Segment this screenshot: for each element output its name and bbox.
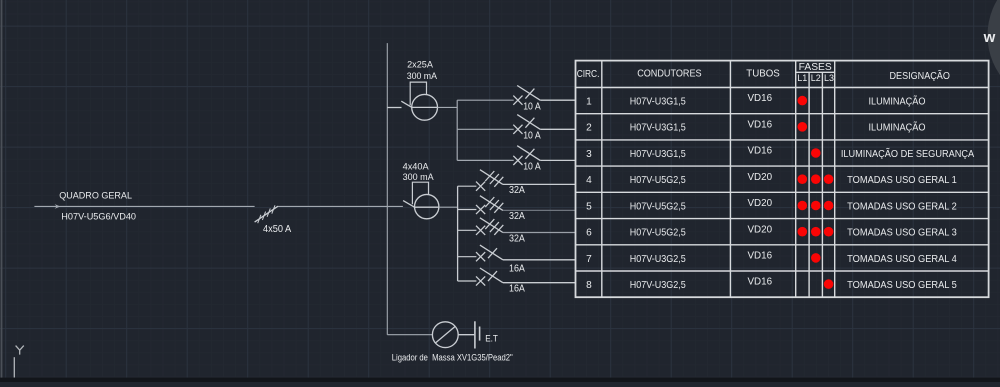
svg-text:8: 8 [586, 280, 592, 291]
breaker Q7 16A circuit 7 [458, 256, 477, 258]
svg-text:TUBOS: TUBOS [746, 68, 780, 79]
svg-text:10 A: 10 A [523, 102, 541, 113]
table row circuit 4 phase L2 dot [811, 174, 821, 184]
table row circuit 5 phase L3 dot [824, 201, 834, 211]
table row circuit 4 phase L3 dot [824, 174, 834, 184]
svg-text:H07V-U5G2,5: H07V-U5G2,5 [630, 201, 686, 212]
svg-text:300 mA: 300 mA [407, 71, 437, 81]
table row circuit 5 phase L2 dot [811, 201, 821, 211]
svg-text:VD20: VD20 [748, 224, 773, 235]
wire earth connector to electrode [458, 334, 474, 336]
breaker Q4 32A circuit 4 [458, 185, 477, 187]
table row circuit 1 phase L1 dot [798, 96, 808, 106]
wire distribution riser 1 [456, 100, 458, 160]
breaker Q2 10A circuit 2 [457, 128, 514, 130]
svg-text:ILUMINAÇÃO: ILUMINAÇÃO [869, 97, 926, 108]
ground electrode bar 2 [479, 327, 481, 341]
svg-text:H07V-U5G6/VD40: H07V-U5G6/VD40 [61, 212, 136, 222]
svg-text:H07V-U5G2,5: H07V-U5G2,5 [630, 228, 686, 239]
wire RCD U1 to distribution [438, 106, 458, 108]
RCD U2 sensor rectangle [412, 182, 428, 204]
svg-text:VD16: VD16 [748, 119, 773, 130]
svg-text:L1: L1 [797, 73, 807, 84]
table row circuit 6 phase L2 dot [811, 227, 821, 237]
svg-text:ILUMINAÇÃO DE SEGURANÇA: ILUMINAÇÃO DE SEGURANÇA [841, 149, 975, 160]
svg-text:4x50 A: 4x50 A [263, 224, 291, 235]
svg-text:TOMADAS USO GERAL 1: TOMADAS USO GERAL 1 [847, 175, 957, 186]
svg-text:FASES: FASES [799, 62, 832, 73]
table row circuit 6 phase L1 dot [798, 227, 808, 237]
svg-text:ILUMINAÇÃO: ILUMINAÇÃO [869, 123, 926, 134]
watermark circle W [988, 0, 1000, 105]
svg-text:VD16: VD16 [748, 93, 773, 104]
UCS icon Y axis [16, 346, 24, 355]
svg-text:L3: L3 [824, 73, 834, 84]
svg-text:VD20: VD20 [748, 172, 773, 183]
ground electrode bar 1 [474, 321, 476, 348]
svg-text:CIRC.: CIRC. [577, 69, 600, 80]
wire RCD U2 to distribution [439, 206, 458, 208]
disconnect switch S1 4x50A blade [255, 206, 278, 222]
RCD U1 toroid circle [412, 94, 438, 120]
breaker Q3 10A circuit 3 [457, 159, 514, 161]
svg-text:TOMADAS USO GERAL 5: TOMADAS USO GERAL 5 [847, 280, 957, 291]
earth connector diagonal [435, 326, 455, 343]
svg-text:300 mA: 300 mA [403, 172, 434, 182]
svg-text:TOMADAS USO GERAL 2: TOMADAS USO GERAL 2 [847, 201, 957, 212]
node feeder arrow [55, 204, 61, 209]
svg-text:7: 7 [586, 254, 592, 265]
svg-text:H07V-U3G2,5: H07V-U3G2,5 [630, 280, 686, 291]
svg-text:w: w [983, 29, 996, 46]
table row circuit 4 phase L1 dot [798, 174, 808, 184]
svg-text:L2: L2 [811, 73, 821, 84]
wire [0, 378, 1000, 382]
table row circuit 6 phase L3 dot [824, 227, 834, 237]
svg-text:Ligador de Massa XV1G35/Pead2: Ligador de Massa XV1G35/Pead2" [392, 352, 513, 362]
svg-text:16A: 16A [509, 263, 525, 274]
svg-text:DESIGNAÇÃO: DESIGNAÇÃO [890, 71, 951, 82]
RCD U1 switch blade [401, 101, 412, 107]
wire bus stub to RCD U1 [387, 107, 401, 109]
circuit table inner lines [576, 61, 989, 298]
table row circuit 7 phase L2 dot [811, 253, 821, 263]
RCD U2 toroid circle [415, 194, 439, 218]
svg-text:6: 6 [586, 228, 592, 239]
svg-text:10 A: 10 A [523, 131, 541, 142]
wire through RCD U2 [415, 206, 439, 208]
svg-text:QUADRO GERAL: QUADRO GERAL [59, 190, 132, 200]
svg-text:VD20: VD20 [748, 198, 773, 209]
svg-text:H07V-U5G2,5: H07V-U5G2,5 [630, 175, 686, 186]
svg-text:E.T: E.T [485, 334, 498, 344]
wire bus to earth [387, 334, 432, 336]
svg-text:4: 4 [586, 175, 592, 186]
svg-text:TOMADAS USO GERAL 3: TOMADAS USO GERAL 3 [847, 228, 957, 239]
breaker Q6 32A circuit 6 [458, 229, 477, 231]
svg-text:2: 2 [586, 123, 592, 134]
RCD U1 sensor rectangle [410, 82, 426, 105]
table row circuit 8 phase L3 dot [824, 279, 834, 289]
wire bus vertical [386, 43, 388, 335]
svg-text:TOMADAS USO GERAL 4: TOMADAS USO GERAL 4 [847, 254, 957, 265]
breaker Q1 10A circuit 1 [457, 99, 514, 101]
svg-text:H07V-U3G2,5: H07V-U3G2,5 [630, 254, 686, 265]
svg-text:32A: 32A [509, 185, 525, 196]
wire feeder to bus [278, 205, 403, 207]
svg-text:VD16: VD16 [748, 277, 773, 288]
svg-text:H07V-U3G1,5: H07V-U3G1,5 [630, 123, 686, 134]
svg-text:32A: 32A [509, 211, 525, 222]
table row circuit 3 phase L2 dot [811, 148, 821, 158]
svg-text:H07V-U3G1,5: H07V-U3G1,5 [630, 149, 686, 160]
circuit table frame [576, 61, 989, 298]
disconnect switch S1 pole ticks [258, 205, 275, 223]
svg-text:32A: 32A [509, 233, 525, 244]
wire distribution riser 2 [457, 186, 459, 281]
svg-text:16A: 16A [509, 284, 525, 295]
svg-text:10 A: 10 A [523, 162, 541, 173]
svg-text:CONDUTORES: CONDUTORES [637, 68, 702, 79]
table row circuit 5 phase L1 dot [798, 201, 808, 211]
svg-text:VD16: VD16 [748, 146, 773, 157]
svg-text:4x40A: 4x40A [403, 162, 429, 172]
earth connector circle (ligador de massa) [432, 322, 458, 348]
svg-text:3: 3 [586, 149, 592, 160]
wire [1, 0, 3, 378]
svg-text:1: 1 [586, 97, 592, 108]
svg-text:5: 5 [586, 201, 592, 212]
RCD U2 switch blade [403, 201, 414, 208]
wire feeder from supply [34, 205, 254, 207]
svg-text:2x25A: 2x25A [407, 60, 433, 70]
svg-text:VD16: VD16 [748, 251, 773, 262]
svg-text:H07V-U3G1,5: H07V-U3G1,5 [630, 97, 686, 108]
table row circuit 2 phase L1 dot [798, 122, 808, 132]
breaker Q8 16A circuit 8 [458, 280, 477, 282]
breaker Q5 32A circuit 5 [458, 209, 477, 211]
wire through RCD U1 [412, 106, 438, 108]
